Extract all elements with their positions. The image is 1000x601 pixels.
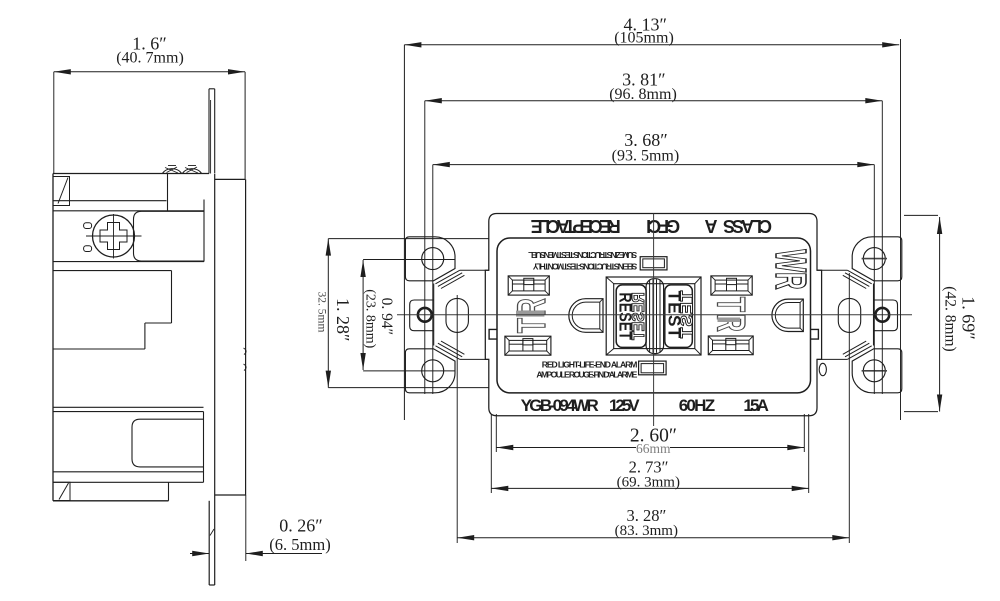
svg-text:1. 28″: 1. 28″	[333, 298, 353, 342]
svg-text:CLASS: CLASS	[723, 216, 772, 236]
svg-text:RESET: RESET	[630, 292, 649, 340]
svg-text:(6. 5mm): (6. 5mm)	[269, 535, 330, 554]
svg-text:15A: 15A	[743, 396, 769, 415]
svg-text:RECEPTACLE: RECEPTACLE	[531, 216, 621, 236]
svg-text:(42. 8mm): (42. 8mm)	[942, 286, 959, 351]
svg-text:0. 94″: 0. 94″	[378, 298, 395, 335]
svg-text:(69. 3mm): (69. 3mm)	[617, 474, 680, 490]
svg-text:(93. 5mm): (93. 5mm)	[612, 148, 680, 165]
svg-text:(96. 8mm): (96. 8mm)	[609, 86, 677, 103]
svg-text:1. 69″: 1. 69″	[959, 296, 979, 340]
svg-text:A: A	[705, 216, 718, 236]
svg-text:(105mm): (105mm)	[614, 30, 674, 47]
svg-text:32. 5mm: 32. 5mm	[316, 292, 328, 333]
svg-text:0. 26″: 0. 26″	[279, 516, 323, 536]
svg-text:125V: 125V	[609, 396, 640, 415]
svg-text:(40. 7mm): (40. 7mm)	[116, 50, 184, 67]
svg-text:SUIVEZ INSTRUCTIONS-TEST MENSU: SUIVEZ INSTRUCTIONS-TEST MENSUEL	[528, 250, 637, 260]
svg-text:60HZ: 60HZ	[679, 396, 715, 415]
svg-text:RED LIGHT-LIFE-END ALARM: RED LIGHT-LIFE-END ALARM	[542, 360, 638, 370]
svg-text:SEE INSTRUCTIONS-TEST MONTHLY: SEE INSTRUCTIONS-TEST MONTHLY	[532, 261, 637, 271]
svg-text:AMPOULE ROUGE-FIN DʼALARME: AMPOULE ROUGE-FIN DʼALARME	[536, 370, 637, 380]
svg-text:(83. 3mm): (83. 3mm)	[615, 523, 678, 539]
svg-text:GFCI: GFCI	[646, 216, 680, 236]
svg-text:66mm: 66mm	[636, 441, 671, 456]
svg-text:(23. 8mm): (23. 8mm)	[363, 289, 378, 348]
svg-text:WR: WR	[766, 249, 816, 289]
svg-text:YGB-094WR: YGB-094WR	[521, 396, 599, 415]
